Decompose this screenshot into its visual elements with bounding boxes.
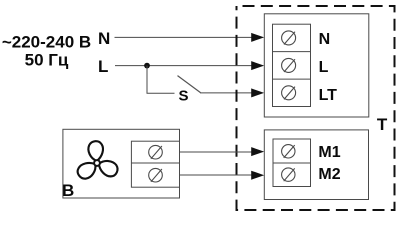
wire from switch to terminal LT bbox=[200, 92, 252, 94]
supply value label ~220-240 V 50 Hz bbox=[2, 33, 91, 70]
screw terminal LT bbox=[282, 86, 296, 100]
screw terminal M1 bbox=[282, 145, 295, 158]
fan screw terminal 1 bbox=[149, 145, 163, 159]
svg-text:~220-240 В: ~220-240 В bbox=[2, 33, 91, 52]
svg-text:LT: LT bbox=[319, 87, 338, 104]
wire branch from L down to switch bbox=[147, 66, 175, 94]
wire fan to terminal M2 bbox=[180, 174, 253, 176]
arrow into terminal LT bbox=[251, 88, 264, 97]
fan symbol bbox=[75, 140, 120, 181]
fan unit enclosure bbox=[63, 129, 180, 198]
svg-text:M2: M2 bbox=[318, 166, 340, 183]
svg-text:T: T bbox=[377, 115, 388, 134]
power terminal strip bbox=[273, 24, 311, 106]
arrow into terminal M2 bbox=[251, 171, 264, 180]
arrow into terminal N bbox=[251, 33, 264, 42]
svg-text:50 Гц: 50 Гц bbox=[25, 51, 69, 70]
svg-text:M1: M1 bbox=[318, 144, 340, 161]
junction node on L bbox=[144, 63, 150, 69]
svg-text:В: В bbox=[62, 181, 74, 200]
screw terminal N bbox=[282, 31, 296, 45]
arrow into terminal M1 bbox=[251, 147, 264, 156]
motor terminal strip bbox=[273, 139, 311, 187]
arrow into terminal L bbox=[251, 61, 264, 70]
screw terminal L bbox=[282, 58, 296, 72]
svg-text:L: L bbox=[319, 59, 329, 76]
motor terminal block outline bbox=[264, 130, 368, 200]
screw terminal M2 bbox=[282, 168, 295, 181]
thermostat dashed enclosure T bbox=[237, 6, 395, 210]
switch S blade bbox=[178, 76, 201, 93]
fan screw terminal 2 bbox=[149, 168, 163, 182]
svg-text:N: N bbox=[98, 29, 110, 48]
power terminal block outline bbox=[264, 14, 369, 117]
svg-text:N: N bbox=[319, 31, 331, 48]
wire N bbox=[115, 36, 253, 38]
wire L bbox=[115, 65, 252, 67]
svg-text:S: S bbox=[179, 88, 189, 105]
svg-text:L: L bbox=[98, 57, 108, 76]
fan terminal strip bbox=[131, 141, 179, 187]
wire fan to terminal M1 bbox=[180, 151, 253, 153]
